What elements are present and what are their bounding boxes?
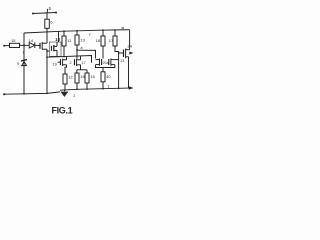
transistor M2 — [74, 59, 76, 65]
node W junction — [76, 49, 78, 51]
svg-text:6: 6 — [50, 20, 53, 25]
ground — [64, 90, 66, 91]
svg-text:9: 9 — [17, 62, 19, 66]
transistor M3 — [101, 59, 103, 65]
svg-text:19: 19 — [53, 63, 57, 67]
svg-text:13: 13 — [80, 38, 85, 43]
svg-text:40: 40 — [106, 74, 111, 79]
node boxA junction — [46, 50, 48, 52]
resistor 17 — [114, 30, 116, 36]
wire M4 drain down — [115, 59, 119, 61]
diode zener 9 — [21, 60, 27, 61]
transistor M4 — [108, 59, 110, 65]
wire top terminal rail — [33, 13, 56, 14]
wire Qout gate — [119, 52, 124, 54]
node rail junction x77 — [76, 30, 78, 32]
resistor 15b — [85, 73, 89, 83]
svg-text:17: 17 — [109, 38, 114, 43]
node junction x24 bottom — [23, 93, 25, 95]
svg-text:23: 23 — [120, 59, 124, 63]
node input terminal — [3, 45, 5, 47]
transistor M1 — [60, 59, 62, 65]
node rail junction x115 — [114, 29, 116, 31]
wire Q1 drain up — [46, 32, 48, 43]
node output arrow — [129, 52, 133, 55]
svg-text:24: 24 — [128, 44, 133, 49]
node qout gate junction — [118, 52, 120, 54]
transistor inside box A — [51, 46, 53, 51]
node bottom terminal left — [3, 93, 5, 95]
wire right column down — [118, 60, 120, 89]
svg-text:11: 11 — [67, 38, 72, 43]
wire M2 source to R16 — [80, 65, 82, 70]
box dashed A — [49, 42, 61, 56]
transistor Q1 — [39, 43, 41, 49]
wire M1 gate — [58, 61, 61, 63]
node junction x24 input — [23, 44, 25, 46]
node 5 tick — [46, 9, 48, 13]
node junction x87 bottom — [86, 88, 88, 90]
wire mirror top link — [77, 50, 96, 58]
node rail junction x64 — [63, 30, 65, 32]
resistor 11 — [63, 31, 65, 36]
svg-text:10: 10 — [55, 37, 60, 42]
wire boxA stub — [47, 50, 49, 52]
node cluster junction x65 — [63, 56, 65, 58]
wire M4 source join — [103, 65, 114, 68]
wire box to diode — [20, 44, 30, 46]
svg-text:14: 14 — [29, 38, 34, 43]
wire bottom rail left — [4, 92, 60, 94]
resistor 8 — [102, 30, 104, 36]
wire cluster top link — [46, 56, 92, 63]
wire bottom rail right — [60, 88, 130, 90]
wire 17 to right pair — [115, 46, 119, 60]
svg-text:7: 7 — [22, 51, 24, 55]
resistor 40 — [101, 72, 105, 82]
svg-text:5: 5 — [49, 6, 52, 11]
node cluster junction x47 — [46, 56, 48, 58]
resistor 15 input box — [10, 43, 20, 47]
node rail junction x103 — [102, 29, 104, 31]
wire Q1 source down — [46, 49, 48, 93]
svg-text:15: 15 — [90, 74, 95, 79]
resistor 6 — [45, 19, 50, 28]
wire top to resistor — [46, 13, 48, 19]
node junction x47 bottom — [46, 93, 48, 95]
svg-text:2: 2 — [73, 94, 75, 98]
node tick top right — [122, 27, 125, 29]
node terminal left top — [32, 13, 34, 15]
wire resistor to rail — [46, 28, 48, 32]
svg-text:15: 15 — [11, 38, 16, 43]
diode 14 — [29, 43, 35, 48]
node bottom terminal right arrow — [129, 86, 134, 89]
node cluster junction x77 — [76, 55, 78, 57]
wire M1 source to R12 — [65, 65, 67, 74]
wire input — [4, 45, 9, 47]
wire boxA to rail — [58, 31, 60, 42]
svg-text:20a: 20a — [103, 61, 109, 65]
svg-text:7: 7 — [89, 32, 92, 37]
resistor 13 — [76, 31, 78, 35]
node junction x103 bottom — [102, 88, 104, 90]
wire 13 down to M2 — [76, 45, 78, 58]
wire top rail — [24, 30, 130, 33]
resistor 12 — [63, 74, 67, 84]
node junction x77 bottom — [76, 88, 78, 90]
svg-text:1: 1 — [107, 85, 109, 89]
resistor 16 — [75, 73, 79, 83]
svg-text:2: 2 — [70, 61, 72, 65]
node junction x118 bottom — [118, 88, 120, 90]
node terminal right top — [55, 12, 57, 14]
wire left edge vertical — [23, 33, 25, 94]
svg-text:12: 12 — [68, 74, 73, 79]
svg-text:FIG.1: FIG.1 — [52, 106, 73, 116]
wire M3 source join — [96, 65, 104, 72]
svg-text:17: 17 — [82, 61, 86, 65]
node rail junction x47 — [46, 31, 48, 33]
wire diode to gate — [35, 44, 40, 46]
svg-text:a: a — [81, 46, 83, 50]
svg-text:18: 18 — [96, 38, 101, 43]
transistor Qout — [123, 50, 125, 58]
wire right edge — [129, 30, 131, 50]
